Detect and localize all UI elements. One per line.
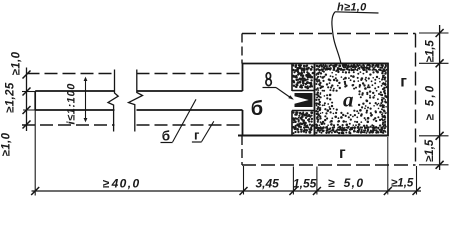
pipe bottom wall, left span (35, 109, 114, 111)
concrete body border (315, 64, 389, 136)
dashed ground line (top of pipe trench), left span (27, 73, 115, 75)
stipple: sleeve column lower cell (292, 111, 313, 134)
tick at y=74.5 (23, 71, 31, 79)
dashed rectangle bottom edge (242, 164, 416, 166)
bottom extension x=387.8 (387, 137, 389, 195)
sleeve column right border upper (314, 64, 316, 92)
extension stub y=91.5 (22, 91, 35, 93)
svg-text:h≥1,0: h≥1,0 (337, 2, 367, 14)
svg-text:1,55: 1,55 (293, 177, 317, 191)
bottom ticks (31, 187, 39, 195)
underline of label v (263, 87, 277, 89)
svg-text:г: г (194, 127, 200, 142)
slope arrow (double headed) (85, 78, 87, 121)
dashed bedding line, right span (137, 124, 241, 126)
bottom extension x=243.5 (243, 166, 245, 195)
nozzle (weep outlet) through sleeve: body (295, 93, 313, 107)
svg-text:а: а (343, 88, 354, 112)
svg-text:≥1,0: ≥1,0 (11, 51, 23, 75)
tick at y=91.5 (23, 88, 31, 96)
leader of middle label b (173, 99, 196, 142)
tick at y=110 (23, 106, 31, 114)
svg-text:≥1,0: ≥1,0 (1, 132, 13, 156)
foundation bottom line (238, 135, 389, 137)
svg-text:≥1,25: ≥1,25 (5, 82, 17, 113)
leader of middle label g (202, 121, 214, 141)
svg-text:≥5,0: ≥5,0 (425, 84, 437, 121)
right extension line y=164.8 (419, 164, 449, 166)
tick at y=124.5 (23, 121, 31, 129)
svg-text:б: б (251, 98, 263, 120)
letter v (nozzle), hand-drawn 8-like glyph (266, 73, 271, 86)
dashed excavation rectangle: top edge (242, 33, 416, 35)
sleeve column left border lower (291, 111, 293, 136)
extension line from pipe end down to bottom dimension (34, 110, 36, 196)
nozzle bore (white converging channel) (295, 96, 309, 103)
dashed rectangle left edge upper part (241, 34, 243, 64)
underline of middle label g (192, 141, 202, 143)
sleeve column left border upper (291, 64, 293, 92)
svg-text:≥40,0: ≥40,0 (103, 177, 141, 191)
svg-text:≥1,5: ≥1,5 (424, 139, 436, 162)
dashed bedding line, left span (22, 124, 115, 126)
stipple: sleeve column upper cell (292, 64, 314, 89)
svg-text:i≤1:100: i≤1:100 (66, 83, 78, 125)
bottom dimension line (32, 190, 422, 192)
pipe top wall, left span (35, 90, 114, 92)
notch top edge (292, 90, 315, 92)
svg-text:г: г (400, 74, 407, 91)
break symbol left (108, 70, 118, 132)
stipple: concrete body (315, 64, 388, 134)
pipe top wall, right span (137, 90, 243, 92)
svg-text:б: б (162, 128, 170, 143)
leader line of label v (276, 88, 293, 100)
svg-text:≥5,0: ≥5,0 (328, 176, 364, 190)
foundation left wall above pipe opening (242, 64, 244, 92)
right vertical dimension line (439, 25, 441, 170)
dashed ground line, right span (137, 73, 240, 75)
sleeve column right border lower (314, 111, 316, 136)
pipe closed left end (34, 91, 36, 110)
right extension line y=63.3 (419, 62, 449, 64)
leader line of label h (332, 12, 341, 64)
notch bottom edge (292, 110, 315, 112)
bottom extension x=416.5 (416, 166, 418, 195)
underline of label h (335, 12, 379, 13)
svg-text:≥1,5: ≥1,5 (391, 178, 414, 190)
right extension line y=135.8 (419, 135, 449, 137)
svg-text:3,45: 3,45 (256, 177, 280, 191)
svg-text:≥1,5: ≥1,5 (425, 40, 437, 63)
pipe bottom wall, right span (137, 109, 243, 111)
svg-text:г: г (339, 145, 346, 162)
break symbol right (129, 70, 143, 132)
bottom extension x=293.4 (292, 167, 294, 195)
extension stub y=110 (23, 109, 35, 111)
foundation top line (243, 63, 389, 65)
foundation left wall below pipe opening (242, 110, 244, 136)
left vertical dimension line (26, 68, 28, 132)
right ticks (436, 29, 444, 37)
dashed rectangle right edge (415, 34, 417, 166)
underline of middle label b (161, 142, 173, 144)
bottom extension x=316.9 (316, 167, 318, 195)
dashed rectangle left edge lower part (241, 136, 243, 165)
right extension line y=33 (419, 32, 449, 34)
